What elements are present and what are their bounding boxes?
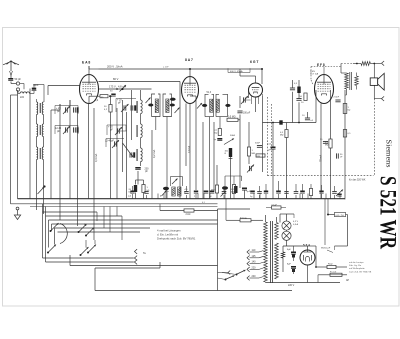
wire v152 [151,130,153,199]
wire bot long [95,262,292,291]
wire lamps [286,214,288,246]
resistor R11 [294,83,301,93]
wire v321 [320,104,322,199]
resistor R12 [300,93,308,101]
svg-text:S 521 WR: S 521 WR [376,176,400,249]
wire left v1 [11,95,18,204]
wire coil gnd b [43,160,45,215]
wire antenna to switch [11,82,16,84]
wire switch bottom1 [43,257,134,259]
svg-text:400 V, 47mA: 400 V, 47mA [230,70,243,73]
tube V1 EAB [80,75,99,104]
svg-text:d. Eis. Ler0ße mit: d. Eis. Ler0ße mit [157,233,178,237]
wire v196 [190,96,196,190]
trimmer bus B [221,191,227,197]
svg-text:8μF: 8μF [287,264,291,266]
wire fuse [318,275,350,283]
resistor R4 [142,185,150,193]
wire v373 dashed [373,99,375,176]
svg-text:4,2 V: 4,2 V [293,221,299,223]
IF coil T1b [166,99,169,113]
svg-text:100 pF: 100 pF [243,113,251,115]
wire switch bottom2 [46,261,134,263]
wire 6x01 [226,199,263,221]
transformer primary [264,222,268,282]
bus ground main [18,198,346,200]
svg-text:Zub. Ltg. Ra: Zub. Ltg. Ra [349,264,362,267]
capacitor C27 [250,191,255,198]
connector speaker top [382,61,385,66]
capacitor C12 0.1 [231,186,238,194]
trimmer CT7 [247,165,254,173]
capacitor C19 50n [320,139,328,143]
wire osc links [140,90,142,166]
coil L10 osc [137,148,142,162]
svg-text:4,2 mA: 4,2 mA [152,150,156,158]
capacitor C16 10n [302,112,314,122]
wire r34 [136,180,144,199]
output transformer primary [345,73,349,89]
wire T2 down a [209,117,211,199]
wire rao [308,246,348,268]
wire osc down [137,171,139,185]
wire v190 [189,104,191,199]
wire switch bottom3 [70,255,218,266]
svg-text:a 1nF: a 1nF [163,67,169,69]
capacitor C31 [300,184,305,199]
wire x325 drop [324,199,326,245]
box 6x01 [240,216,251,222]
trimmer CT8 [336,190,343,197]
wire psu top [218,208,251,210]
resistor R6 27k [215,129,222,136]
wire coil links [37,115,44,148]
wire v299 [298,80,300,123]
capacitor C30 [294,184,299,199]
IF T2 loop b [216,94,228,116]
switch arrow S1e [87,245,96,254]
capacitor C20 30n [337,153,344,158]
connector Ta1 [135,249,147,255]
svg-text:80 V: 80 V [113,77,119,81]
wire v240 [239,96,241,188]
IF transformer T1 loop b [163,94,172,117]
coil T3b [178,187,181,196]
svg-text:WN: WN [257,156,261,158]
capacitor C7 pad [130,152,135,157]
capacitor C35 [163,187,169,199]
text 0.1mA [188,145,191,153]
switch arrow S1d [80,247,89,256]
wire switch loop 5 [55,228,151,245]
svg-text:für das 520 WK: für das 520 WK [349,179,366,182]
capacitor C11 50n [255,143,262,148]
text 4.2mA [152,150,156,158]
capacitor C23 psu [335,212,346,216]
capacitor T1 cc [170,104,175,107]
wire psu box left [217,209,219,291]
coil L7 band [40,147,44,160]
trimmer CT6 [241,96,251,104]
wire V1 underwires [89,88,118,199]
capacitor C15 [296,99,304,105]
wire v273 [272,123,274,199]
wire mid v 122 [122,100,124,172]
svg-text:6×0,1μ: 6×0,1μ [240,216,248,219]
choke winding [281,252,285,258]
coil L3 [40,102,44,115]
wire v286 [286,123,288,199]
fuse F1 [330,271,342,276]
svg-text:Siemens: Siemens [385,140,393,168]
trimmer CT5 12-40pF [105,139,124,149]
svg-text:22,7 mA: 22,7 mA [310,73,319,76]
wire otp top [341,63,361,73]
label V2 8A7 [185,58,193,62]
capacitor C5 [110,91,116,97]
label 400V [228,68,250,73]
svg-text:125: 125 [252,255,257,258]
capacitor C39 [264,184,268,199]
resistor R20 01uF [266,204,286,209]
wire left v5 [59,104,61,220]
wire V2 top [189,68,191,77]
connector speaker bot [374,96,384,101]
svg-text:Drehpunkt nach Zub. BV 780/91: Drehpunkt nach Zub. BV 780/91 [157,237,196,241]
resistor R3 dark [129,185,138,194]
svg-text:8μF: 8μF [287,249,291,251]
resistor R15 [325,130,351,149]
capacitor C1 50pF [8,78,21,81]
capacitor C25 [210,191,215,198]
wire dashed phono b [271,104,273,176]
wire v203 [202,122,204,199]
switch arrow S1a [50,223,59,232]
label V4 EFB [317,63,325,67]
switch arrow S1c [85,228,94,237]
wire v255 [255,97,257,112]
capacitor C3 [74,107,79,112]
wire psu mid [283,246,308,274]
svg-text:220: 220 [252,266,257,269]
capacitor C21 8u [287,249,296,258]
coil L2 [37,99,45,115]
tap arrows [247,250,250,281]
bus third [30,206,218,208]
antenna [3,61,19,71]
connector mains [218,271,231,275]
capacitor C18 2.5n [334,97,341,102]
svg-text:222: 222 [20,96,25,99]
wire switch loop 6 [58,231,141,233]
svg-text:auf die Lautspr.: auf die Lautspr. [349,261,364,264]
lamp LP1 [282,221,291,230]
output transformer core [350,72,352,90]
label V5 5Z4 [303,243,310,247]
wire mid v 117 [116,108,118,199]
capacitor C38 [222,186,228,198]
svg-text:12-40pF: 12-40pF [105,140,114,143]
svg-text:6 G T: 6 G T [250,60,259,64]
coil L8 osc [137,100,142,114]
tube V3 6GT [249,83,263,97]
wire dashed phono h [268,175,374,177]
transformer sec HT [275,243,279,279]
ground symbol [14,207,20,219]
coil T3 frame [171,177,183,187]
svg-text:110: 110 [252,249,256,252]
svg-text:RaΩ: RaΩ [328,264,333,266]
resistor R8 [229,158,232,160]
wire B+ 200V line [89,66,262,69]
wire switch loop 1 [43,204,98,258]
resistor R5 0.5M [227,117,238,122]
switch mains [218,270,246,281]
potentiometer P1 [224,135,236,145]
trimmer CT1 +20pF [55,106,78,115]
capacitor C13 5u [242,188,251,199]
bus second [11,203,218,205]
trimmer T2a [197,103,202,109]
wire v345 [344,90,346,199]
wire v249 [248,122,250,164]
resistor R14 1k [343,104,350,114]
svg-text:50 pF: 50 pF [15,78,22,81]
coil L9 osc [137,124,142,138]
output transformer secondary [355,76,359,86]
wire 173V line [99,88,152,90]
coil L1 222 [20,92,30,99]
box WN [256,154,265,158]
capacitor C9 100pF [237,111,250,115]
wire left v2 [17,90,19,199]
svg-text:2 kΩ: 2 kΩ [186,214,191,216]
wire left v3 [29,89,31,199]
resistor R19 [309,184,312,199]
lamp LP2 [282,231,291,240]
trimmer T1a [146,98,151,104]
coil T3a [172,187,175,196]
wire left v7 [77,110,79,226]
wire v262 [261,68,263,84]
IF coil T1a [155,99,158,113]
wire to conn top [370,63,381,65]
text 0.4mA [94,154,98,162]
svg-text:220 V: 220 V [288,284,295,287]
resistor R16 field [361,62,370,66]
svg-text:5 Z 4: 5 Z 4 [303,243,310,247]
wire left v9 [93,108,95,240]
wire lamp top [280,214,294,223]
tap labels [252,249,257,278]
label 22mA [310,71,319,76]
svg-text:Fu 0,5: Fu 0,5 [330,271,337,273]
wire 6gt top [240,69,256,83]
svg-text:240: 240 [252,275,257,278]
wire pot down [230,157,232,199]
capacitor C24 [202,191,208,205]
coil L5 [40,124,44,137]
trimmer bus A [162,191,167,197]
IF T2 loop a [205,94,214,116]
capacitor C17 .05 [267,144,276,152]
node connector A2 [16,88,19,91]
resistor R7 dark [225,148,233,157]
capacitor C37 [194,191,198,199]
svg-text:kΩ: kΩ [348,110,351,112]
wire v340 244 [344,198,346,201]
svg-text:173 V , 4,8 mA: 173 V , 4,8 mA [109,85,126,89]
capacitor C6 [131,105,136,110]
capacitor T1 ca [148,104,153,107]
potentiometer P2 AVC [38,185,46,194]
wire EFB plate [323,67,325,75]
svg-text:50kΩ: 50kΩ [230,135,236,137]
label V1 EAB [82,61,90,65]
resistor R1 0.2 [95,95,108,102]
capacitor C29 [276,181,281,199]
svg-text:0,1mA: 0,1mA [188,145,191,153]
svg-text:0,4 mA: 0,4 mA [94,154,98,162]
text 80V [113,67,169,82]
text 78mA [320,154,323,162]
connector Ta3 [134,260,138,265]
svg-text:200 V , 5/mA: 200 V , 5/mA [107,65,123,69]
svg-text:kΩ: kΩ [215,133,218,135]
svg-text:8 A 7: 8 A 7 [185,58,193,62]
wire to coil [18,91,20,93]
node connector A1 [16,82,19,85]
wire psu bottom [266,265,341,287]
svg-text:Welld. pF: Welld. pF [321,248,331,250]
svg-text:MΩ: MΩ [325,145,329,147]
wire bend A [20,84,24,90]
resistor R2 [104,105,112,113]
IF coil T2a [210,99,213,112]
text note [157,229,196,241]
trimmer arrow long [123,143,134,157]
svg-text:2,5nF: 2,5nF [334,97,340,99]
capacitor C36 [184,186,188,199]
resistor R23 [232,176,235,199]
wire r17 [160,204,218,211]
text 173V [109,85,126,92]
svg-text:0,5 MΩ: 0,5 MΩ [228,117,236,119]
svg-text:50nF: 50nF [255,143,261,145]
wire v266 [262,96,264,172]
node R1 [109,95,111,97]
svg-text:4 mal bei Lösungen: 4 mal bei Lösungen [157,229,181,233]
tap wires [250,251,264,279]
text fuer das [349,179,366,182]
wire bus stubs [158,194,340,199]
trimmer CT2 12-40pF [55,126,78,135]
IF transformer T1 loop a [152,94,161,117]
svg-text:MΩ: MΩ [280,135,284,137]
capacitor C33 [130,186,134,199]
label V3 6GT [250,60,259,64]
resistor R9 1M [247,147,255,156]
text 200V 5mA [107,65,123,69]
svg-text:AP: AP [346,279,350,282]
tube V4 EFB [315,75,334,104]
wire c23 [327,199,348,216]
capacitor C34 [144,192,148,199]
switch arrow S1b [78,224,87,233]
wire v345 to psu [345,89,347,95]
wire v180 [179,82,181,199]
svg-text:5μ: 5μ [250,196,252,198]
wire left v6 [69,100,71,199]
wire T1 down a [155,117,157,131]
label Ta top [84,224,87,227]
resistor R10 4M [211,185,219,193]
tube V5 5Z4 [300,250,315,265]
wire v217 [216,165,218,199]
svg-text:auf Wellenplatte: auf Wellenplatte [349,267,365,270]
capacitor C40 [284,192,288,199]
wire left v8 [88,104,90,199]
wire switch drops [97,207,122,241]
hanger group B [225,176,242,186]
svg-text:nach Zub. BV 780b VB: nach Zub. BV 780b VB [349,271,372,273]
capacitor C26 [222,186,227,199]
speaker SP1 [370,73,384,90]
wire switch loop 4 [52,224,218,231]
resistor R13 0.3M [280,130,288,138]
switch rotary arc [60,224,67,244]
coil L6 band [37,147,38,160]
wire mid v 131 [131,90,133,140]
svg-text:0,1μF: 0,1μF [272,204,278,206]
svg-text:51,3: 51,3 [207,92,212,94]
svg-text:MΩ: MΩ [252,153,256,155]
capacitor C8 200pF [135,167,149,173]
trimmer CT3 +20pF [116,99,136,113]
wire left v4 [51,110,60,199]
wire dashed phono a [267,97,269,176]
wire trafo top [266,215,277,223]
label T3 [168,189,189,193]
capacitor T1 cb [170,98,176,101]
wire spk wires [356,73,358,90]
wire 80V line [99,81,181,83]
capacitor C41 [319,185,323,199]
IF coil T2b [216,99,219,112]
wire v316 [315,90,317,123]
wire switch v int2 [86,240,95,248]
capacitor C28 [257,186,262,199]
wire mid v 126 [126,112,128,199]
wire switch loop 3 [49,220,218,248]
svg-text:0,3 A: 0,3 A [293,223,299,226]
wire v186 [185,104,187,167]
tube V2 8A7 [182,77,199,104]
svg-text:140: 140 [252,261,257,264]
wire v374 through [373,64,375,99]
wire EFB top dashed [311,67,341,86]
text S521WR [376,176,400,249]
connector Ta2 [134,256,138,261]
wire switch loop 2 [46,207,123,263]
wire coil gnd a [36,160,38,211]
label T2 [207,92,212,94]
capacitor T2 cb [225,104,230,107]
wire h 122 [263,120,317,124]
resistor R18 RaO [327,264,336,269]
label lamps [293,221,299,226]
wire V1 left grid [48,86,80,96]
